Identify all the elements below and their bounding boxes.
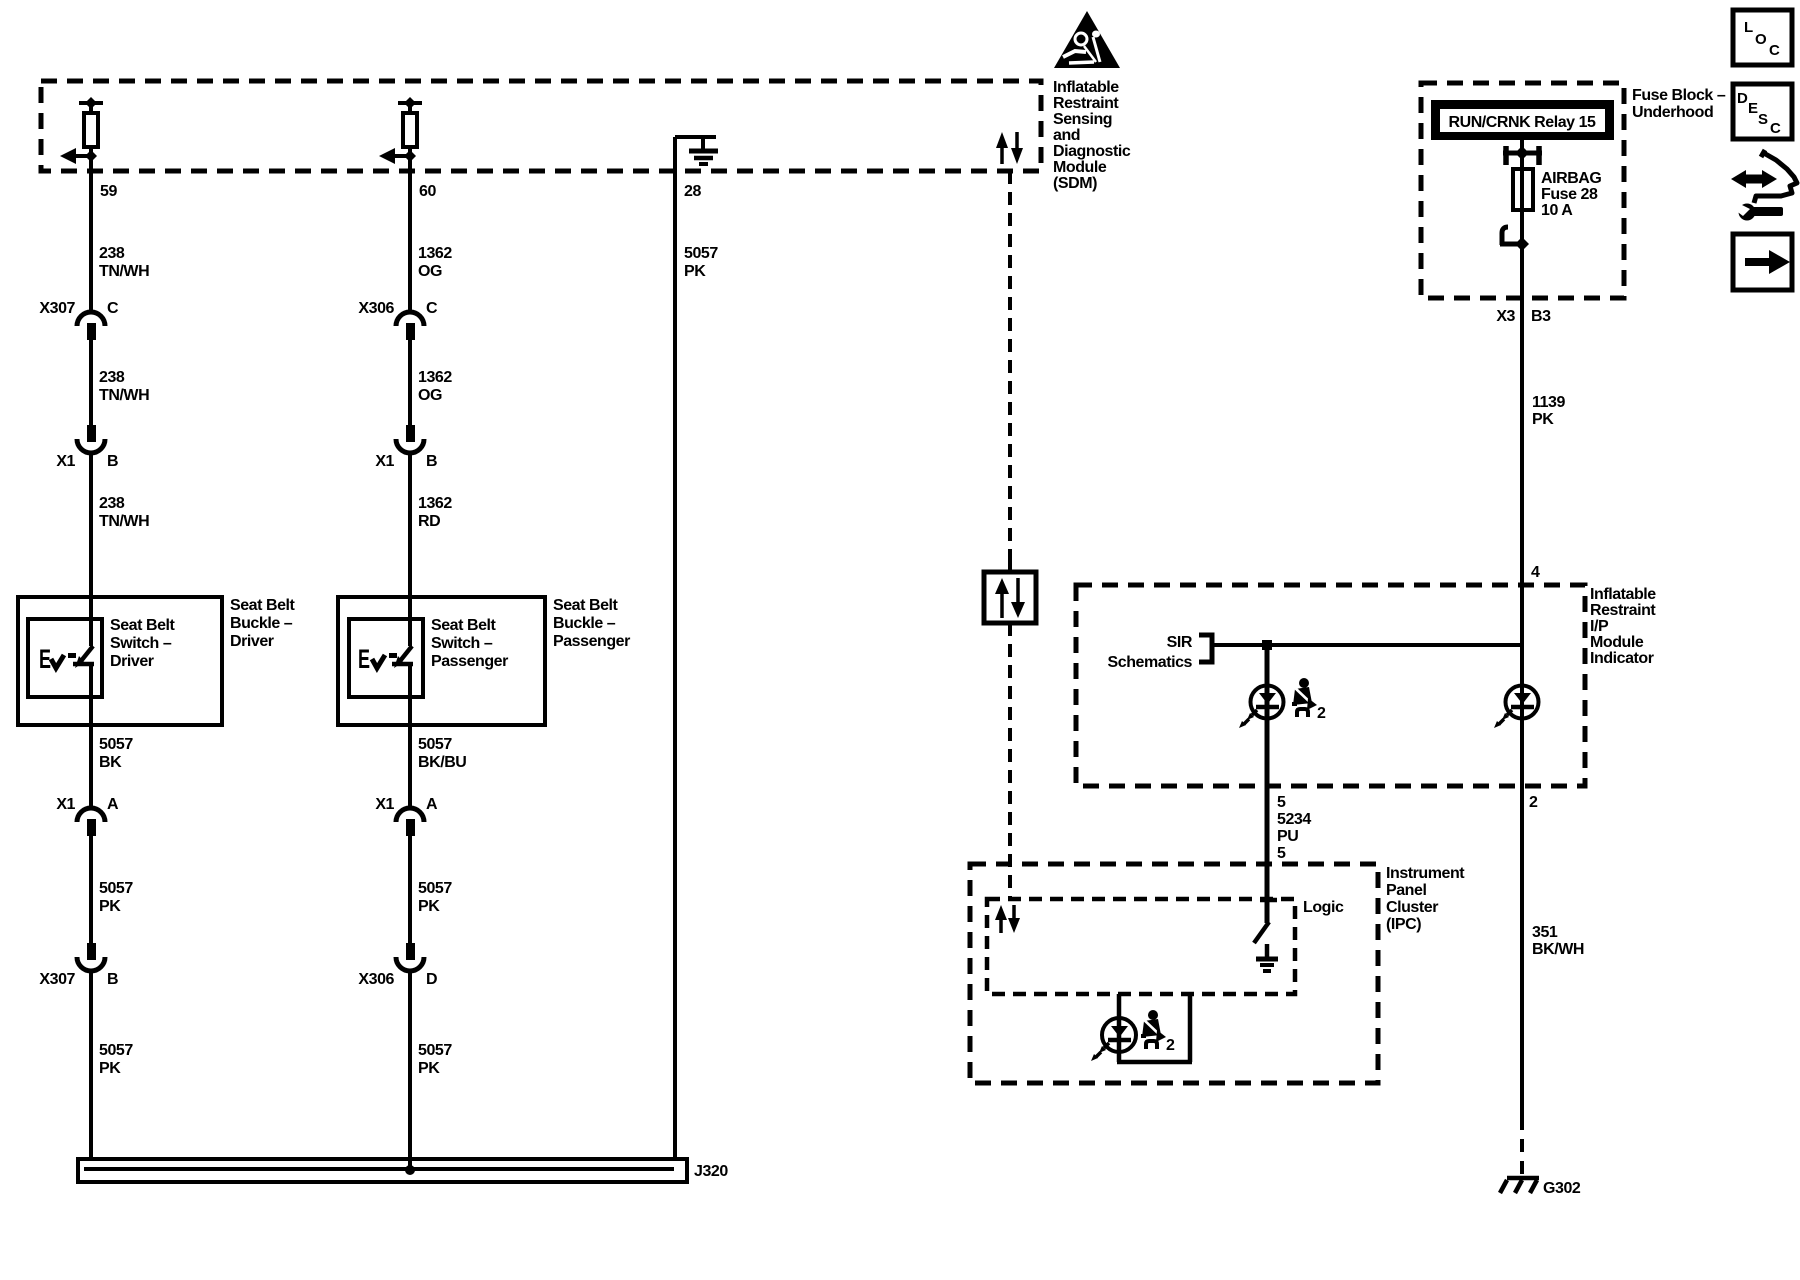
svg-text:O: O xyxy=(1755,31,1767,48)
svg-text:J320: J320 xyxy=(694,1163,728,1180)
svg-text:Restraint: Restraint xyxy=(1053,95,1119,112)
fuse block label xyxy=(1632,87,1726,121)
ground G302 xyxy=(1500,1178,1581,1197)
connector X1 B xyxy=(56,425,118,470)
fuse AIRBAG 28 xyxy=(1513,169,1533,210)
seat belt switch driver inner box xyxy=(28,619,102,697)
wire driver main xyxy=(89,147,93,1161)
wire lamp2 down 351 BK/WH xyxy=(1532,924,1584,958)
svg-text:PK: PK xyxy=(684,263,706,280)
svg-text:Seat Belt: Seat Belt xyxy=(110,617,176,634)
indicator lamp2 xyxy=(1494,686,1539,729)
resistor SDM passenger xyxy=(403,113,417,147)
label seat belt switch passenger xyxy=(431,617,508,670)
svg-text:D: D xyxy=(426,971,437,988)
svg-text:Restraint: Restraint xyxy=(1590,602,1656,619)
logic switch blade xyxy=(1254,922,1269,943)
svg-text:Diagnostic: Diagnostic xyxy=(1053,143,1131,160)
wire label 1362 OG mid xyxy=(418,369,452,404)
label 2 xyxy=(1529,794,1538,811)
wire passenger main xyxy=(408,147,412,1171)
svg-text:Driver: Driver xyxy=(230,633,274,650)
svg-text:5057: 5057 xyxy=(418,1042,452,1059)
svg-text:Instrument: Instrument xyxy=(1386,865,1465,882)
svg-text:B3: B3 xyxy=(1531,308,1551,325)
seat belt pictogram lamp3 xyxy=(1141,1010,1166,1049)
svg-text:B: B xyxy=(107,971,118,988)
svg-text:Switch –: Switch – xyxy=(110,635,172,652)
seat belt switch symbol passenger xyxy=(358,644,413,674)
wire label 5057 PK ground xyxy=(684,245,718,280)
svg-text:59: 59 xyxy=(100,183,117,200)
dashed serial data line upper xyxy=(1008,171,1012,572)
svg-text:Logic: Logic xyxy=(1303,899,1344,916)
svg-text:Fuse Block –: Fuse Block – xyxy=(1632,87,1726,104)
svg-text:C: C xyxy=(1769,42,1780,59)
wire label 5057 PK passenger xyxy=(418,880,452,915)
svg-text:X1: X1 xyxy=(56,796,75,813)
connector X1 B passenger xyxy=(375,425,437,470)
wire label 5057 BK xyxy=(99,736,133,771)
svg-text:5: 5 xyxy=(1277,794,1286,811)
svg-text:238: 238 xyxy=(99,245,125,262)
SDM ground symbol xyxy=(675,137,718,164)
pin 59 label xyxy=(100,183,117,200)
svg-text:Fuse 28: Fuse 28 xyxy=(1541,186,1598,203)
svg-text:Switch –: Switch – xyxy=(431,635,493,652)
svg-text:Seat Belt: Seat Belt xyxy=(431,617,497,634)
svg-text:E: E xyxy=(358,644,370,674)
svg-text:238: 238 xyxy=(99,495,125,512)
serial data arrows box xyxy=(984,562,1036,633)
seat belt buckle driver outer box xyxy=(18,597,222,725)
svg-text:5057: 5057 xyxy=(99,1042,133,1059)
label seat belt buckle passenger xyxy=(553,597,630,650)
wire label 1362 RD xyxy=(418,495,452,530)
svg-text:X1: X1 xyxy=(375,796,394,813)
svg-text:S: S xyxy=(1758,111,1768,128)
svg-text:X3: X3 xyxy=(1496,308,1515,325)
forward arrow nav box xyxy=(1733,234,1792,290)
pin tick at logic box xyxy=(1260,898,1277,903)
wire SDM pin 28 ground xyxy=(673,137,677,1161)
svg-text:L: L xyxy=(1744,19,1753,36)
svg-text:Passenger: Passenger xyxy=(431,653,508,670)
svg-text:C: C xyxy=(107,300,119,317)
inflatable restraint IP module indicator dashed box xyxy=(1076,585,1585,786)
wire label 238 TN/WH mid xyxy=(99,369,149,404)
svg-text:BK/WH: BK/WH xyxy=(1532,941,1584,958)
junction node at lamp1 branch xyxy=(1262,640,1272,650)
svg-text:1362: 1362 xyxy=(418,495,452,512)
svg-text:5057: 5057 xyxy=(99,880,133,897)
dashed wire to G302 xyxy=(1520,1117,1524,1176)
SIR Schematics label xyxy=(1108,634,1193,671)
svg-text:C: C xyxy=(1770,120,1781,137)
wire 1139 PK xyxy=(1522,298,1565,1117)
svg-text:Cluster: Cluster xyxy=(1386,899,1438,916)
svg-text:Buckle –: Buckle – xyxy=(230,615,293,632)
connector X306 D xyxy=(358,943,437,988)
wire label 5057 PK driver lower xyxy=(99,1042,133,1077)
splice pack J320 xyxy=(78,1159,728,1182)
svg-text:D: D xyxy=(1737,90,1748,107)
svg-text:BK: BK xyxy=(99,754,122,771)
connector labels X3 B3 xyxy=(1496,308,1551,325)
svg-text:TN/WH: TN/WH xyxy=(99,387,149,404)
svg-text:2: 2 xyxy=(1529,794,1538,811)
arrow to left passenger xyxy=(379,148,416,164)
SIR schematics bracket xyxy=(1199,635,1212,662)
wire label 5057 PK passenger lower xyxy=(418,1042,452,1077)
svg-text:238: 238 xyxy=(99,369,125,386)
svg-text:Buckle –: Buckle – xyxy=(553,615,616,632)
fuse label xyxy=(1541,170,1601,219)
svg-text:X1: X1 xyxy=(56,453,75,470)
svg-text:4: 4 xyxy=(1531,564,1540,581)
label 5 upper xyxy=(1277,794,1286,811)
wire label 5057 BK/BU xyxy=(418,736,466,771)
svg-text:X307: X307 xyxy=(39,971,75,988)
svg-text:and: and xyxy=(1053,127,1080,144)
fuse clip lower xyxy=(1500,227,1529,251)
svg-text:B: B xyxy=(107,453,118,470)
svg-text:Seat Belt: Seat Belt xyxy=(553,597,619,614)
label seat belt switch driver xyxy=(110,617,176,670)
wire logic box to lamp3 xyxy=(1117,994,1122,1062)
seat belt switch symbol driver xyxy=(39,644,94,674)
svg-text:PK: PK xyxy=(99,898,121,915)
label 5 lower xyxy=(1277,845,1286,862)
RUN/CRNK Relay 15 xyxy=(1431,100,1614,140)
svg-text:X306: X306 xyxy=(358,300,394,317)
svg-text:Underhood: Underhood xyxy=(1632,104,1713,121)
svg-text:5: 5 xyxy=(1277,845,1286,862)
svg-text:X306: X306 xyxy=(358,971,394,988)
fuse clip upper xyxy=(1503,146,1542,165)
IPC label xyxy=(1386,865,1465,933)
svg-text:Sensing: Sensing xyxy=(1053,111,1112,128)
resistor SDM driver xyxy=(84,113,98,147)
svg-text:Panel: Panel xyxy=(1386,882,1426,899)
connector X1 A xyxy=(56,796,119,836)
SDM dashed box xyxy=(41,81,1041,171)
svg-text:1362: 1362 xyxy=(418,369,452,386)
svg-text:Inflatable: Inflatable xyxy=(1590,586,1656,603)
svg-text:Indicator: Indicator xyxy=(1590,650,1654,667)
svg-text:X307: X307 xyxy=(39,300,75,317)
svg-text:RUN/CRNK Relay 15: RUN/CRNK Relay 15 xyxy=(1449,114,1597,131)
svg-text:I/P: I/P xyxy=(1590,618,1609,635)
svg-text:A: A xyxy=(426,796,438,813)
seat belt pictogram lamp1 xyxy=(1292,678,1317,717)
svg-text:Passenger: Passenger xyxy=(553,633,630,650)
Logic label xyxy=(1303,899,1344,916)
svg-text:Module: Module xyxy=(1590,634,1644,651)
indicator lamp3 IPC xyxy=(1091,1018,1136,1061)
svg-text:PU: PU xyxy=(1277,828,1298,845)
SDM terminal T-bar driver xyxy=(79,97,103,114)
wire label 1362 OG upper xyxy=(418,245,452,280)
svg-text:E: E xyxy=(1748,100,1758,117)
svg-text:BK/BU: BK/BU xyxy=(418,754,466,771)
svg-text:AIRBAG: AIRBAG xyxy=(1541,170,1601,187)
IPC logic inner dashed box xyxy=(987,899,1295,994)
lamp3 return wire xyxy=(1117,994,1192,1062)
SDM label text xyxy=(1053,79,1131,192)
svg-text:E: E xyxy=(39,644,51,674)
svg-text:Schematics: Schematics xyxy=(1108,654,1193,671)
pin 60 label xyxy=(419,183,436,200)
SDM serial data arrows xyxy=(996,132,1023,164)
SDM terminal T-bar passenger xyxy=(398,97,422,114)
svg-text:60: 60 xyxy=(419,183,436,200)
seat belt buckle passenger outer box xyxy=(338,597,545,725)
svg-text:1362: 1362 xyxy=(418,245,452,262)
svg-text:Seat Belt: Seat Belt xyxy=(230,597,296,614)
pin 28 label xyxy=(684,183,701,200)
svg-text:SIR: SIR xyxy=(1167,634,1193,651)
svg-text:B: B xyxy=(426,453,437,470)
svg-text:Module: Module xyxy=(1053,159,1107,176)
connector X1 A passenger xyxy=(375,796,438,836)
logic chassis ground xyxy=(1256,944,1278,971)
svg-text:(SDM): (SDM) xyxy=(1053,175,1097,192)
wire down to lamp1 xyxy=(1265,645,1270,923)
wire relay to fuse xyxy=(1520,140,1524,298)
warning triangle airbag icon xyxy=(1054,11,1120,68)
svg-text:Inflatable: Inflatable xyxy=(1053,79,1119,96)
svg-text:2: 2 xyxy=(1317,705,1326,722)
wire label 238 TN/WH lower xyxy=(99,495,149,530)
svg-text:2: 2 xyxy=(1166,1037,1175,1054)
wire label 238 TN/WH upper xyxy=(99,245,149,280)
svg-text:Driver: Driver xyxy=(110,653,154,670)
wire label 5057 PK driver xyxy=(99,880,133,915)
svg-text:PK: PK xyxy=(1532,411,1554,428)
svg-text:28: 28 xyxy=(684,183,701,200)
subscript 2 lamp1 xyxy=(1317,705,1326,722)
svg-text:C: C xyxy=(426,300,438,317)
svg-text:RD: RD xyxy=(418,513,440,530)
svg-text:OG: OG xyxy=(418,263,442,280)
subscript 2 lamp3 xyxy=(1166,1037,1175,1054)
svg-text:5057: 5057 xyxy=(99,736,133,753)
horizontal wire SIR to lamp2 xyxy=(1212,643,1522,647)
IPC outer dashed box xyxy=(970,864,1378,1083)
seat belt switch passenger inner box xyxy=(349,619,423,697)
connector X307 C xyxy=(39,300,119,340)
svg-text:10 A: 10 A xyxy=(1541,202,1573,219)
logic serial arrows xyxy=(995,905,1020,933)
DESC nav box xyxy=(1733,84,1792,139)
dashed serial data line lower xyxy=(1008,623,1012,899)
svg-text:TN/WH: TN/WH xyxy=(99,513,149,530)
LOC nav box xyxy=(1733,10,1792,65)
fuse block underhood dashed box xyxy=(1421,83,1624,298)
arrow to left driver xyxy=(60,148,97,164)
svg-text:G302: G302 xyxy=(1543,1180,1581,1197)
svg-text:PK: PK xyxy=(418,1060,440,1077)
svg-text:5057: 5057 xyxy=(418,736,452,753)
svg-text:351: 351 xyxy=(1532,924,1558,941)
svg-text:A: A xyxy=(107,796,119,813)
connector X307 B xyxy=(39,943,118,988)
label 4 xyxy=(1531,564,1540,581)
svg-text:1139: 1139 xyxy=(1532,394,1565,411)
svg-text:5234: 5234 xyxy=(1277,811,1311,828)
svg-text:OG: OG xyxy=(418,387,442,404)
svg-text:X1: X1 xyxy=(375,453,394,470)
svg-text:5057: 5057 xyxy=(684,245,718,262)
label seat belt buckle driver xyxy=(230,597,296,650)
svg-text:PK: PK xyxy=(418,898,440,915)
wrench and arrows icon xyxy=(1731,150,1797,221)
svg-text:(IPC): (IPC) xyxy=(1386,916,1421,933)
label inflatable restraint IP module indicator xyxy=(1590,586,1656,667)
wire label 5234 PU xyxy=(1277,811,1311,845)
indicator lamp1 xyxy=(1239,686,1284,729)
connector X306 C xyxy=(358,300,438,340)
svg-text:PK: PK xyxy=(99,1060,121,1077)
svg-text:TN/WH: TN/WH xyxy=(99,263,149,280)
svg-text:5057: 5057 xyxy=(418,880,452,897)
